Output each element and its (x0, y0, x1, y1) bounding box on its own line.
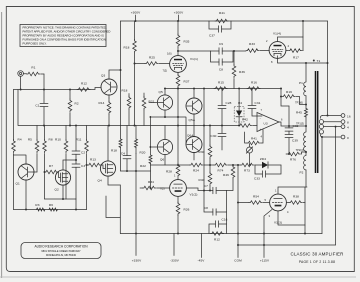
svg-text:C30: C30 (211, 134, 217, 138)
svg-text:C7: C7 (204, 184, 208, 188)
svg-text:C28: C28 (226, 101, 232, 105)
svg-text:R18: R18 (111, 149, 117, 153)
wire main bus A (14, 88, 102, 90)
svg-text:R3: R3 (35, 203, 39, 207)
wire bottom bus upper (120, 233, 322, 235)
svg-text:V1(1): V1(1) (190, 57, 198, 61)
svg-text:1(6): 1(6) (167, 52, 172, 56)
junction (237, 202, 239, 204)
resistor R40 (199, 165, 212, 191)
svg-text:+300V: +300V (174, 11, 184, 15)
wire op-amp output (279, 122, 306, 126)
svg-text:R37: R37 (184, 80, 190, 84)
winding P1 (299, 63, 306, 105)
resistor R16 (247, 81, 260, 91)
svg-text:MINNEAPOLIS, MN 55430: MINNEAPOLIS, MN 55430 (46, 254, 77, 257)
resistor R41B feedback (245, 130, 263, 145)
zener ZD4 (260, 157, 268, 168)
junction (135, 20, 137, 22)
wire mid lower row (121, 170, 151, 172)
svg-text:16: 16 (347, 114, 351, 118)
junction (238, 88, 240, 90)
wire Q1 collector link (14, 155, 27, 164)
svg-text:R20: R20 (140, 151, 146, 155)
wire Q1 emitter (25, 180, 27, 210)
capacitor C8B (204, 191, 227, 216)
svg-text:Q6A: Q6A (187, 134, 194, 138)
resistor R18 (124, 21, 137, 53)
resistor R73 (241, 163, 254, 172)
capacitor C16 (209, 218, 228, 234)
svg-text:8: 8 (347, 121, 349, 125)
transistor Q4 (98, 126, 121, 186)
wire plate row (178, 50, 211, 52)
svg-text:R4: R4 (18, 138, 22, 142)
svg-text:Q6: Q6 (160, 158, 165, 162)
svg-text:R24: R24 (193, 169, 199, 173)
capacitor C32 (285, 106, 299, 131)
junction (75, 209, 77, 211)
svg-text:C16: C16 (222, 218, 228, 222)
svg-text:C37: C37 (209, 34, 215, 38)
input jack J1 (18, 71, 24, 77)
transistor Q3 (101, 70, 121, 98)
resistor R5 (28, 126, 39, 173)
svg-text:4: 4 (347, 125, 349, 129)
resistor R13 (86, 158, 106, 169)
wire B+ drop right (327, 21, 329, 116)
svg-text:R17: R17 (293, 56, 299, 60)
resistor R41 (215, 11, 228, 23)
junction (43, 125, 45, 127)
svg-text:U3: U3 (264, 122, 268, 126)
svg-text:R2: R2 (75, 102, 79, 106)
resistor R38 (286, 195, 305, 205)
junction (69, 89, 71, 91)
svg-text:TP2(4): TP2(4) (296, 148, 304, 152)
junction (135, 170, 137, 172)
svg-text:T1: T1 (317, 59, 321, 63)
node COM (234, 244, 242, 263)
wire V1(4) plate top (278, 37, 304, 42)
svg-text:P2: P2 (300, 171, 304, 175)
svg-text:C2: C2 (81, 151, 85, 155)
capacitor C9 (211, 42, 234, 54)
wire V1(4) cathode row (278, 56, 328, 63)
svg-text:R76: R76 (290, 158, 296, 162)
junction (150, 187, 152, 189)
svg-text:Q1: Q1 (16, 182, 21, 186)
wire top rail (121, 20, 328, 22)
svg-text:R35: R35 (184, 40, 190, 44)
resistor R19 (280, 88, 306, 105)
svg-text:R25: R25 (149, 56, 155, 60)
wire link drop (75, 199, 77, 210)
wire U4 top (238, 89, 240, 107)
svg-text:V1(2): V1(2) (190, 193, 198, 197)
svg-text:ZD4: ZD4 (260, 157, 266, 161)
resistor R20 (135, 126, 146, 155)
svg-text:+300V: +300V (131, 11, 141, 15)
resistor R76 (286, 152, 306, 162)
capacitor C30 (211, 126, 226, 151)
junction (164, 116, 166, 118)
wire jack ground drop (20, 76, 22, 89)
junction (126, 170, 128, 172)
terminal 8 (341, 120, 349, 125)
svg-text:TP1(3): TP1(3) (296, 122, 304, 126)
svg-text:AUDIO RESEARCH CORPORATION: AUDIO RESEARCH CORPORATION (34, 244, 88, 248)
tube V1(4) (266, 32, 290, 65)
svg-text:R5: R5 (28, 138, 32, 142)
svg-text:R18: R18 (122, 89, 128, 93)
svg-text:-330V: -330V (170, 259, 180, 263)
svg-text:Q2: Q2 (55, 188, 60, 192)
svg-text:COM: COM (234, 259, 242, 263)
resistor R12 (77, 82, 90, 92)
resistor R15 (214, 81, 227, 91)
junction (288, 125, 290, 127)
wire V1(3) plate loop (278, 187, 307, 225)
junction (150, 116, 152, 118)
capacitor C7 (186, 184, 226, 194)
transistor Q6 (152, 126, 173, 166)
svg-text:CLASSIC 30 AMPLIFIER: CLASSIC 30 AMPLIFIER (290, 252, 343, 257)
svg-text:R18: R18 (124, 46, 130, 50)
capacitor C39 (285, 131, 298, 154)
wire cap column link (280, 96, 289, 107)
junction (304, 233, 306, 235)
wire row 165 (151, 164, 282, 166)
junction (62, 198, 64, 200)
svg-text:R13: R13 (90, 158, 96, 162)
svg-text:R46: R46 (223, 173, 229, 177)
resistor R25 (134, 56, 170, 66)
resistor R37 (176, 72, 189, 165)
svg-text:Q5: Q5 (159, 90, 164, 94)
resistor R10 (55, 126, 68, 200)
svg-text:C31: C31 (255, 101, 261, 105)
potentiometer trimmer (246, 144, 252, 166)
node -45V (198, 234, 206, 263)
junction (249, 164, 251, 166)
node +115V (260, 234, 270, 263)
node -330V (170, 234, 180, 263)
node +330V (132, 154, 142, 263)
svg-text:R7: R7 (49, 164, 53, 168)
junction (327, 62, 329, 64)
winding P mid (304, 126, 306, 151)
wire V1(4) right drop (302, 37, 304, 51)
junction (75, 125, 77, 127)
svg-text:R10: R10 (55, 138, 61, 142)
capacitor C3 (72, 154, 85, 199)
junction (20, 89, 22, 91)
resistor R42 (239, 118, 258, 128)
audio research corporation title box (21, 243, 101, 259)
svg-text:C1: C1 (35, 104, 39, 108)
svg-text:R1: R1 (31, 66, 35, 70)
resistor R34 (140, 180, 170, 190)
junction V1(1) plate (177, 50, 179, 52)
wire COM column (237, 165, 239, 245)
svg-text:Q5A: Q5A (189, 118, 196, 122)
wire left vertical (13, 90, 15, 141)
resistor R11 (76, 126, 89, 210)
tube V1(1) (163, 52, 199, 73)
capacitor C8 (211, 51, 234, 72)
tube V1(3) (265, 189, 290, 225)
svg-text:R34: R34 (148, 180, 154, 184)
resistor R30 (199, 125, 212, 166)
resistor R16B (122, 89, 131, 126)
svg-text:R42: R42 (242, 118, 248, 122)
svg-text:C4: C4 (121, 152, 125, 156)
junction (305, 62, 307, 64)
wire Q4 drop (119, 185, 121, 234)
resistor R4 (12, 138, 22, 210)
junction (43, 89, 45, 91)
svg-text:R41: R41 (251, 137, 257, 141)
junction (177, 125, 179, 127)
resistor R14 (99, 98, 111, 126)
wire lower link row (45, 198, 77, 200)
wire mid link row (152, 117, 186, 145)
wire output drop A (321, 136, 323, 234)
svg-text:U4: U4 (238, 101, 242, 105)
junction (237, 164, 239, 166)
capacitor C37 (209, 21, 231, 38)
wire output drop B (335, 126, 337, 245)
transistor Q5A (186, 89, 202, 126)
junction (134, 125, 136, 127)
junction (237, 233, 239, 235)
junction (44, 171, 46, 173)
junction (203, 190, 205, 192)
junction (209, 190, 211, 192)
capacitor C4 (121, 126, 131, 172)
resistor R24 (190, 163, 203, 172)
resistor R22 (140, 117, 152, 188)
junction (177, 233, 179, 235)
svg-text:R28: R28 (166, 170, 172, 174)
svg-text:R15: R15 (218, 81, 224, 85)
proprietary notice box (20, 25, 110, 47)
winding secondary (319, 116, 323, 138)
svg-text:+330V: +330V (132, 259, 142, 263)
svg-text:Q4: Q4 (98, 179, 103, 183)
svg-text:6801 SHINGLE CREEK PARKWAY: 6801 SHINGLE CREEK PARKWAY (41, 250, 81, 253)
svg-text:7(2): 7(2) (160, 187, 165, 191)
wire rail drop to V1(4) (302, 21, 304, 37)
resistor R18B (111, 126, 122, 172)
terminal 4 (341, 125, 349, 130)
svg-text:R36: R36 (239, 70, 245, 74)
resistor R26 (176, 196, 189, 233)
winding P2 (300, 152, 306, 187)
resistor R6 (49, 203, 57, 211)
svg-text:C33: C33 (254, 177, 260, 181)
junction (164, 88, 166, 90)
transistor Q6A (186, 126, 202, 161)
junction (263, 233, 265, 235)
wire follower drop column (203, 88, 205, 191)
junction (177, 116, 179, 118)
resistor R45 (296, 105, 307, 127)
svg-text:C3: C3 (81, 164, 85, 168)
resistor R7 (45, 164, 61, 178)
svg-text:7(2): 7(2) (163, 69, 168, 73)
junction (193, 88, 195, 90)
resistor R8 (43, 126, 53, 200)
svg-text:R54: R54 (253, 195, 259, 199)
op-amp U3 (257, 108, 283, 139)
svg-text:TP1(6): TP1(6) (295, 100, 303, 104)
resistor R2 (68, 90, 79, 126)
transistor Q1 (16, 164, 35, 186)
resistor R17 (286, 49, 303, 60)
wire V1(3) bottom drop (304, 225, 306, 234)
svg-text:PURPOSES ONLY.: PURPOSES ONLY. (23, 42, 47, 46)
wire tap 0 (323, 136, 342, 138)
junction (69, 125, 71, 127)
junction (75, 159, 77, 161)
resistor R54 (238, 195, 270, 205)
svg-text:R6: R6 (49, 203, 53, 207)
capacitor C2 (72, 126, 85, 155)
junction (120, 69, 122, 71)
capacitor C1 (35, 90, 48, 126)
svg-text:R41: R41 (219, 11, 225, 15)
wire tap 16 (323, 115, 342, 117)
capacitor C28 (218, 88, 232, 127)
wire V1(3) pin3 drop (264, 210, 272, 234)
transistor Q2 (55, 160, 77, 199)
svg-text:C8: C8 (204, 206, 208, 210)
wire bottom bus lower (238, 244, 336, 246)
svg-text:Q3: Q3 (101, 74, 106, 78)
junction (150, 146, 152, 148)
wire rail left drop (120, 21, 122, 126)
svg-text:C39: C39 (292, 139, 298, 143)
tap TP2(4) (296, 148, 307, 153)
wire bottom left row (14, 209, 87, 211)
svg-text:R14: R14 (99, 101, 105, 105)
svg-text:0: 0 (347, 136, 349, 140)
junction (177, 20, 179, 22)
svg-text:R12: R12 (81, 82, 87, 86)
scan edge bottom line (0, 276, 356, 279)
svg-text:R16: R16 (251, 81, 257, 85)
junction (177, 88, 179, 90)
svg-text:V1(4): V1(4) (273, 32, 281, 36)
junction (209, 164, 211, 166)
terminal 16 (341, 114, 351, 119)
svg-text:R8: R8 (49, 138, 53, 142)
resistor R74 (214, 163, 227, 172)
transistor Q5 (149, 89, 173, 118)
junction 16 row (327, 115, 329, 117)
wire R18 column (134, 53, 136, 126)
svg-text:R26: R26 (184, 208, 190, 212)
svg-text:R45: R45 (296, 111, 302, 115)
wire bus A right (165, 88, 282, 90)
svg-text:-45V: -45V (198, 259, 206, 263)
svg-text:R12: R12 (214, 238, 220, 242)
junction (232, 164, 234, 166)
resistor R33 (233, 42, 269, 52)
svg-text:R38: R38 (293, 195, 299, 199)
svg-text:R19: R19 (286, 90, 292, 94)
junction (108, 125, 110, 127)
resistor R35 (176, 21, 189, 56)
node +300V right (174, 11, 184, 22)
capacitor C33 (254, 165, 281, 181)
tap TP1(3) (296, 122, 307, 128)
junction (302, 20, 304, 22)
resistor R39 (223, 165, 235, 191)
svg-text:R73: R73 (244, 169, 250, 173)
tap TP1(6) (295, 100, 307, 105)
svg-text:C9: C9 (219, 42, 223, 46)
terminal 0 (341, 135, 349, 140)
resistor R1 (23, 66, 44, 76)
svg-text:PAGE 1 OF 2 11.3.88: PAGE 1 OF 2 11.3.88 (299, 260, 335, 264)
svg-text:P1: P1 (299, 81, 303, 85)
wire bus B (18, 90, 239, 126)
wire Q1 base (33, 171, 37, 173)
resistor R3 (35, 203, 44, 211)
svg-text:+115V: +115V (260, 259, 270, 263)
wire R1 drop (43, 74, 45, 90)
resistor R21 (142, 93, 154, 126)
resistor R12B (211, 232, 224, 242)
wire tap 4 (324, 126, 342, 128)
svg-text:C8: C8 (219, 68, 223, 72)
resistor R28 (166, 164, 180, 180)
svg-text:R21: R21 (149, 100, 155, 104)
diode U4 (234, 101, 244, 127)
svg-text:R74: R74 (218, 169, 224, 173)
transformer T1 core (313, 59, 321, 173)
svg-text:R33: R33 (249, 42, 255, 46)
svg-text:R22: R22 (140, 164, 146, 168)
scan edge left strip (0, 12, 3, 278)
capacitor C31 (248, 88, 262, 117)
wire step lower (106, 196, 120, 218)
drawing title (290, 252, 343, 265)
wire tap 8 (324, 121, 342, 123)
tube V1(2) (160, 174, 198, 197)
resistor R36 (232, 50, 245, 89)
node +300V left (131, 11, 141, 22)
junction (25, 209, 27, 211)
svg-text:R11: R11 (76, 138, 82, 142)
wire caps right drop (226, 191, 228, 225)
